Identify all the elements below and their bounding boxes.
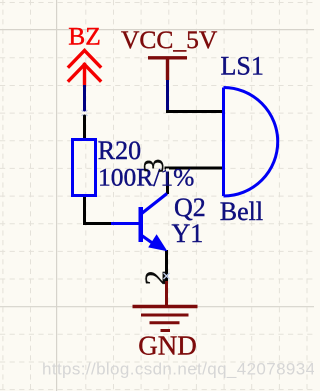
svg-text:Q2: Q2 xyxy=(174,193,206,222)
svg-text:VCC_5V: VCC_5V xyxy=(121,25,218,54)
svg-text:Bell: Bell xyxy=(220,197,263,226)
svg-text:GND: GND xyxy=(138,331,197,361)
svg-text:2: 2 xyxy=(139,270,172,285)
svg-text:3: 3 xyxy=(139,159,170,173)
svg-text:BZ: BZ xyxy=(68,22,101,51)
svg-text:Y1: Y1 xyxy=(172,219,204,248)
svg-text:R20: R20 xyxy=(98,136,141,165)
svg-text:LS1: LS1 xyxy=(221,52,264,81)
svg-text:https://blog.csdn.net/qq_42078: https://blog.csdn.net/qq_42078934 xyxy=(42,360,314,379)
